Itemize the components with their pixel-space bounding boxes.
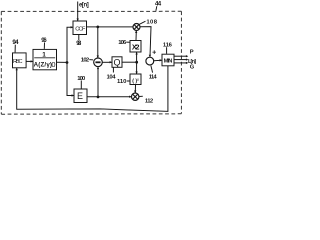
svg-text:114: 114 — [149, 75, 158, 81]
svg-text:+: + — [152, 47, 156, 56]
svg-text:E: E — [77, 91, 83, 101]
svg-text:MIN: MIN — [164, 58, 173, 64]
svg-text:116: 116 — [163, 43, 173, 49]
svg-text:100: 100 — [77, 76, 86, 82]
svg-text:0: 0 — [51, 60, 55, 69]
svg-text:110: 110 — [117, 79, 127, 85]
svg-text:102: 102 — [81, 58, 90, 64]
svg-text:108: 108 — [146, 20, 157, 26]
svg-text:e[n]: e[n] — [79, 3, 89, 9]
svg-text:A(Z/γ): A(Z/γ) — [34, 62, 52, 69]
svg-text:106: 106 — [118, 40, 127, 46]
svg-text:96: 96 — [41, 37, 47, 44]
svg-text:( )²: ( )² — [132, 78, 139, 84]
svg-text:94: 94 — [12, 39, 19, 46]
svg-text:RBC: RBC — [13, 59, 23, 65]
svg-text:98: 98 — [76, 40, 82, 47]
svg-text:1: 1 — [42, 52, 46, 59]
svg-text:Q: Q — [113, 57, 120, 67]
svg-text:112: 112 — [145, 98, 154, 104]
svg-text:44: 44 — [155, 1, 162, 8]
svg-text:CCF: CCF — [75, 26, 86, 32]
svg-text:G: G — [190, 64, 195, 70]
svg-text:P: P — [190, 50, 194, 56]
svg-text:X2: X2 — [132, 42, 140, 51]
svg-text:104: 104 — [107, 74, 117, 80]
